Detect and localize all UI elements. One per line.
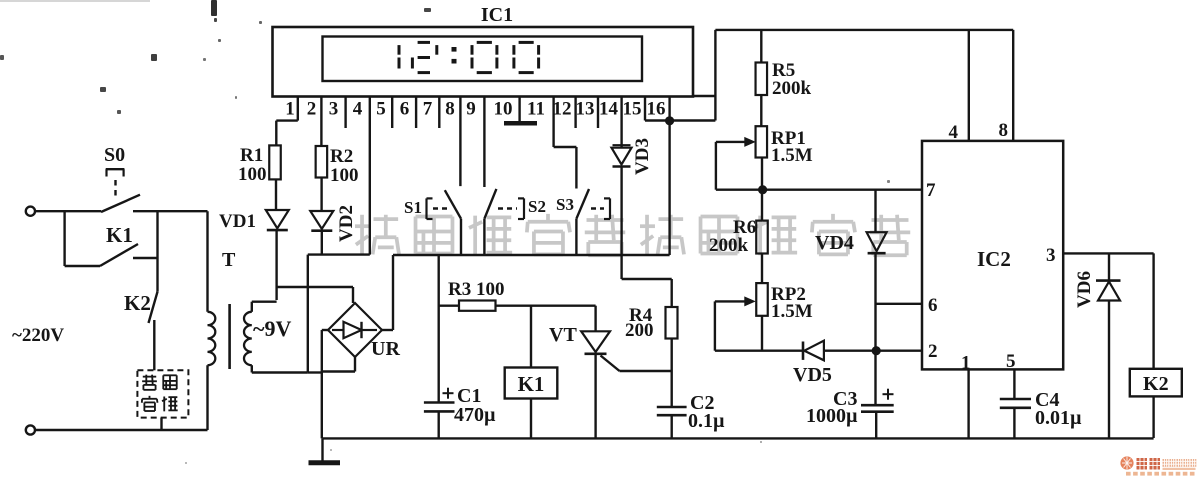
svg-text:VD5: VD5 <box>793 364 832 386</box>
svg-text:S2: S2 <box>528 197 546 216</box>
svg-text:13: 13 <box>576 99 595 120</box>
svg-text:K1: K1 <box>106 223 133 247</box>
svg-text:2: 2 <box>307 99 317 120</box>
svg-text:8: 8 <box>445 99 455 120</box>
svg-text:IC1: IC1 <box>481 4 513 26</box>
svg-text:VD6: VD6 <box>1074 271 1095 308</box>
svg-text:5: 5 <box>1006 351 1016 372</box>
svg-text:5: 5 <box>376 99 386 120</box>
svg-text:VD4: VD4 <box>815 232 854 254</box>
svg-text:1: 1 <box>285 99 295 120</box>
svg-text:IC2: IC2 <box>977 247 1011 271</box>
svg-text:12: 12 <box>553 99 572 120</box>
svg-text:6: 6 <box>400 99 410 120</box>
svg-text:1.5M: 1.5M <box>771 145 813 166</box>
svg-text:100: 100 <box>330 165 359 186</box>
svg-text:K2: K2 <box>124 291 151 315</box>
svg-text:200k: 200k <box>709 235 749 256</box>
svg-text:3: 3 <box>329 99 339 120</box>
svg-text:R3 100: R3 100 <box>448 279 504 300</box>
svg-text:4: 4 <box>949 122 959 143</box>
svg-text:15: 15 <box>623 99 642 120</box>
svg-text:0.1µ: 0.1µ <box>688 410 725 432</box>
svg-text:0.01µ: 0.01µ <box>1035 407 1082 429</box>
svg-text:200: 200 <box>625 320 654 341</box>
svg-text:S1: S1 <box>404 198 422 217</box>
svg-text:200k: 200k <box>772 78 812 99</box>
svg-text:R2: R2 <box>330 146 353 167</box>
svg-text:1000µ: 1000µ <box>806 405 858 427</box>
svg-text:UR: UR <box>371 338 400 360</box>
svg-text:R1: R1 <box>240 145 263 166</box>
svg-text:3: 3 <box>1046 245 1056 266</box>
svg-text:VD2: VD2 <box>336 205 357 242</box>
svg-text:T: T <box>222 249 236 271</box>
svg-text:4: 4 <box>353 99 363 120</box>
svg-text:8: 8 <box>999 120 1009 141</box>
svg-text:2: 2 <box>928 341 938 362</box>
svg-text:10: 10 <box>494 99 513 120</box>
svg-text:16: 16 <box>647 99 666 120</box>
svg-text:~220V: ~220V <box>12 325 64 346</box>
svg-text:7: 7 <box>423 99 433 120</box>
svg-text:K2: K2 <box>1143 373 1169 395</box>
svg-text:9: 9 <box>466 99 476 120</box>
svg-text:VD3: VD3 <box>632 138 653 175</box>
svg-text:14: 14 <box>599 99 619 120</box>
svg-text:~9V: ~9V <box>253 316 291 341</box>
svg-text:7: 7 <box>926 180 936 201</box>
svg-text:VD1: VD1 <box>219 211 256 232</box>
svg-text:11: 11 <box>527 99 545 120</box>
svg-text:100: 100 <box>238 164 267 185</box>
svg-text:6: 6 <box>928 295 938 316</box>
svg-text:K1: K1 <box>518 372 545 396</box>
svg-text:S0: S0 <box>104 144 125 166</box>
svg-text:VT: VT <box>549 324 577 346</box>
svg-text:470µ: 470µ <box>454 404 496 426</box>
svg-text:S3: S3 <box>556 195 574 214</box>
svg-text:1.5M: 1.5M <box>771 301 813 322</box>
